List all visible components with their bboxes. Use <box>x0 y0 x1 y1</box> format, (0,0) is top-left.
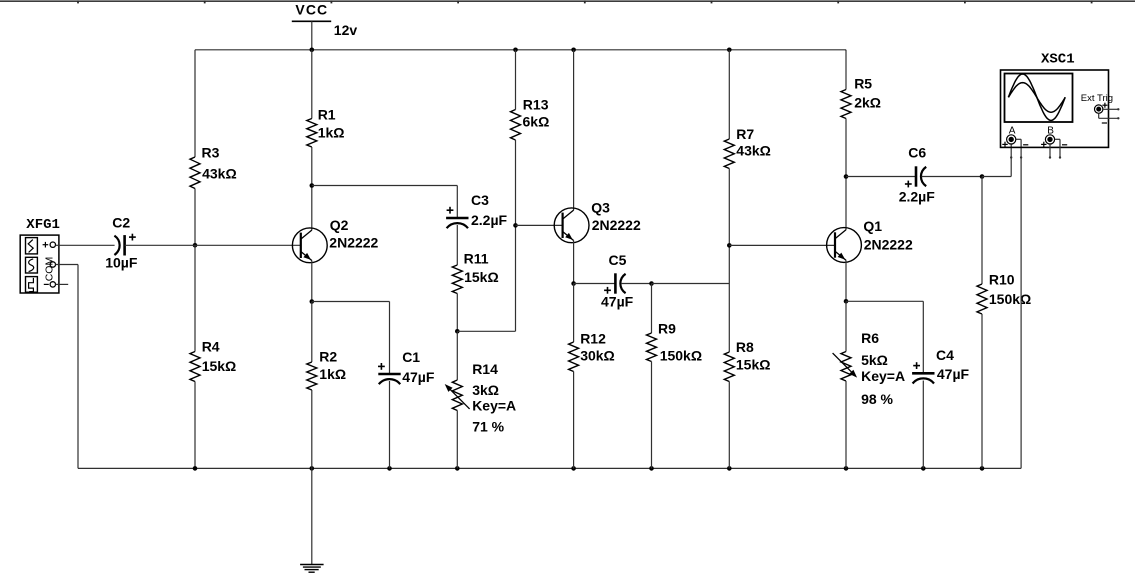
capacitor C3 <box>446 192 507 228</box>
svg-text:150kΩ: 150kΩ <box>989 291 1031 307</box>
wire R6 to ground rail <box>845 381 847 468</box>
svg-text:47µF: 47µF <box>601 293 634 309</box>
svg-text:R9: R9 <box>658 321 676 337</box>
resistor R2 <box>307 348 346 390</box>
svg-text:47µF: 47µF <box>937 366 970 382</box>
resistor R11 <box>452 251 498 294</box>
svg-text:C3: C3 <box>471 192 489 208</box>
VCC power symbol <box>292 1 358 50</box>
svg-text:30kΩ: 30kΩ <box>580 348 615 364</box>
node rail-R7 <box>727 48 732 53</box>
wire R1 top lead <box>311 50 313 119</box>
svg-text:12v: 12v <box>334 22 358 38</box>
svg-text:R4: R4 <box>202 338 220 354</box>
svg-text:1kΩ: 1kΩ <box>319 366 346 382</box>
node rail-C1 <box>387 466 392 471</box>
svg-text:10µF: 10µF <box>105 255 138 271</box>
wire junction to R13 branch <box>457 330 515 332</box>
svg-text:Key=A: Key=A <box>472 397 516 413</box>
svg-text:5kΩ: 5kΩ <box>861 352 888 368</box>
wire input node to R4 <box>194 245 196 351</box>
wire R4 to ground rail <box>194 382 196 469</box>
svg-text:Key=A: Key=A <box>861 368 905 384</box>
sheet top border <box>0 1 1135 4</box>
node rail-R1 <box>310 48 315 53</box>
wire R2 to ground rail <box>311 390 313 468</box>
wire R9 to ground rail <box>651 362 653 469</box>
svg-text:Ext Trig: Ext Trig <box>1081 93 1113 104</box>
oscilloscope XSC1 <box>1001 52 1114 148</box>
svg-text:150kΩ: 150kΩ <box>660 348 702 364</box>
svg-text:R8: R8 <box>736 339 754 355</box>
wire R13 down to R11 junction <box>515 140 517 331</box>
node Q1 emitter <box>844 299 849 304</box>
svg-text:3kΩ: 3kΩ <box>472 382 499 398</box>
node C6/R10 <box>980 174 985 179</box>
node Q1 base <box>727 243 732 248</box>
svg-text:71 %: 71 % <box>472 418 504 434</box>
wire R3 to input node <box>194 189 196 246</box>
svg-text:15kΩ: 15kΩ <box>464 269 499 285</box>
svg-text:C1: C1 <box>402 349 420 365</box>
transistor Q1 <box>827 218 913 262</box>
wire R1 to Q2 collector <box>311 147 313 230</box>
wire R9 node to R8 branch <box>652 283 730 285</box>
wire XFG1 plus to C2 <box>56 244 115 246</box>
node Q2 collector / C3 tap <box>310 183 315 188</box>
resistor R13 <box>511 97 550 140</box>
svg-text:43kΩ: 43kΩ <box>736 143 771 159</box>
wire R10 node to scope A <box>982 144 1011 177</box>
wire bottom ground rail <box>78 467 1021 469</box>
node R11/R14 junction <box>455 329 460 334</box>
node rail-R6 <box>844 466 849 471</box>
svg-text:R13: R13 <box>523 97 549 113</box>
wire scope B stubs <box>1010 139 1061 158</box>
node rail-Q3 collector <box>571 48 576 53</box>
wire collector node to C6 <box>846 176 916 178</box>
svg-text:R5: R5 <box>854 76 872 92</box>
svg-text:2.2µF: 2.2µF <box>899 188 936 204</box>
potentiometer R14 <box>445 361 516 434</box>
wire R13 top lead <box>515 50 517 110</box>
wire R14 top lead <box>456 331 458 380</box>
wire XFG1 COM down to ground rail <box>56 265 79 469</box>
svg-text:C4: C4 <box>936 347 954 363</box>
node Q2 emitter <box>310 299 315 304</box>
resistor R7 <box>724 126 771 169</box>
node input (C2/R3/R4/Q2 base) <box>193 243 198 248</box>
svg-text:XFG1: XFG1 <box>26 217 60 233</box>
wire Q3 collector to rail <box>573 50 575 210</box>
svg-text:R6: R6 <box>861 330 879 346</box>
svg-text:98 %: 98 % <box>861 391 893 407</box>
wire C3 to R11 <box>456 225 458 265</box>
svg-text:R14: R14 <box>472 361 498 377</box>
svg-text:COM: COM <box>43 257 55 282</box>
capacitor C2 <box>105 214 138 270</box>
wire R14 to ground rail <box>456 411 458 469</box>
svg-text:R10: R10 <box>989 271 1015 287</box>
node Q3 base tap <box>513 223 518 228</box>
svg-text:2N2222: 2N2222 <box>329 235 378 251</box>
resistor R5 <box>841 76 881 119</box>
wire R5 to Q1 collector <box>845 119 847 230</box>
svg-text:XSC1: XSC1 <box>1041 52 1075 68</box>
resistor R9 <box>647 321 703 364</box>
wire C2 to Q2 base <box>125 244 301 246</box>
wire C4 top lead <box>922 301 924 372</box>
node rail-R12 <box>571 466 576 471</box>
wire Q2 emitter <box>311 261 313 302</box>
svg-text:R12: R12 <box>580 331 606 347</box>
wire XFG1 minus stub <box>56 283 69 285</box>
svg-text:R3: R3 <box>202 144 220 160</box>
wire scope A- to ground rail <box>1016 139 1021 468</box>
wire C1 to ground rail <box>389 381 391 468</box>
wire Q1 emitter <box>845 260 847 301</box>
node rail-C4 <box>921 466 926 471</box>
resistor R3 <box>190 144 237 188</box>
svg-text:15kΩ: 15kΩ <box>736 357 771 373</box>
svg-text:2kΩ: 2kΩ <box>854 95 881 111</box>
node Q3 emitter <box>571 281 576 286</box>
node rail-R14 <box>455 466 460 471</box>
node rail-R13 <box>513 48 518 53</box>
wire R10 top lead <box>981 177 983 285</box>
svg-text:2N2222: 2N2222 <box>864 236 913 252</box>
wire R11 to node <box>456 294 458 332</box>
svg-text:15kΩ: 15kΩ <box>202 358 237 374</box>
svg-text:R2: R2 <box>319 348 337 364</box>
wire R9 top lead <box>651 284 653 334</box>
svg-text:VCC: VCC <box>295 1 328 17</box>
wire to Q3 base <box>516 224 563 226</box>
svg-text:2N2222: 2N2222 <box>592 217 641 233</box>
svg-text:C2: C2 <box>112 214 130 230</box>
node Q1 collector / C6 tap <box>844 174 849 179</box>
svg-text:Q1: Q1 <box>863 218 882 234</box>
node rail-R9 <box>649 466 654 471</box>
wire R10 to ground rail <box>981 314 983 468</box>
wire emitter node to C1 <box>312 301 390 303</box>
svg-text:C6: C6 <box>908 145 926 161</box>
svg-text:1kΩ: 1kΩ <box>318 124 345 140</box>
wire collector node to C3 <box>312 185 458 187</box>
resistor R1 <box>307 107 345 147</box>
svg-text:47µF: 47µF <box>402 369 435 385</box>
wire R12 top lead <box>573 284 575 343</box>
wire C1 top lead <box>389 302 391 374</box>
node rail-R4 <box>193 466 198 471</box>
wire Q3 emitter <box>573 241 575 284</box>
wire C5 to R9 node <box>621 283 652 285</box>
wire ext trig stubs <box>1099 108 1120 119</box>
ground <box>300 468 324 572</box>
wire emitter to C5 <box>574 283 616 285</box>
wire R3 branch top <box>194 50 196 157</box>
transistor Q2 <box>292 217 378 263</box>
wire R5 top lead <box>844 50 847 90</box>
capacitor C6 <box>899 145 936 205</box>
svg-text:Q3: Q3 <box>591 200 610 216</box>
wire R12 to ground rail <box>573 372 575 469</box>
potentiometer R6 <box>833 330 905 407</box>
svg-text:R1: R1 <box>318 107 336 123</box>
resistor R8 <box>724 339 770 382</box>
resistor R10 <box>977 271 1031 314</box>
svg-text:R11: R11 <box>464 251 489 267</box>
wire base node to Q1 <box>729 244 835 246</box>
wire C4 to ground rail <box>922 381 924 469</box>
transistor Q3 <box>554 200 641 243</box>
svg-text:R7: R7 <box>736 126 754 142</box>
capacitor C1 <box>378 349 435 385</box>
capacitor C5 <box>601 252 634 309</box>
svg-text:Q2: Q2 <box>330 217 349 233</box>
function generator XFG1 <box>20 217 60 293</box>
wire emitter node to C4 <box>846 300 923 302</box>
node rail-R8 <box>727 466 732 471</box>
node C5/R9 <box>649 281 654 286</box>
node rail-R10 <box>980 466 985 471</box>
wire R8 to ground rail <box>728 382 730 469</box>
wire top supply rail <box>195 49 846 51</box>
resistor R4 <box>190 338 236 381</box>
node rail-ground tap <box>310 466 315 471</box>
wire R7 top lead <box>728 50 730 139</box>
svg-text:C5: C5 <box>609 252 627 268</box>
resistor R12 <box>569 331 615 372</box>
wire R7 to R8 <box>728 169 730 353</box>
svg-text:6kΩ: 6kΩ <box>523 114 550 130</box>
wire R6 top lead <box>845 301 847 351</box>
svg-text:43kΩ: 43kΩ <box>202 166 237 182</box>
wire R2 top lead <box>311 302 313 363</box>
svg-text:2.2µF: 2.2µF <box>471 212 508 228</box>
wire C6 to R10 node <box>922 176 982 178</box>
wire C3 top lead <box>456 186 458 218</box>
capacitor C4 <box>912 347 969 384</box>
